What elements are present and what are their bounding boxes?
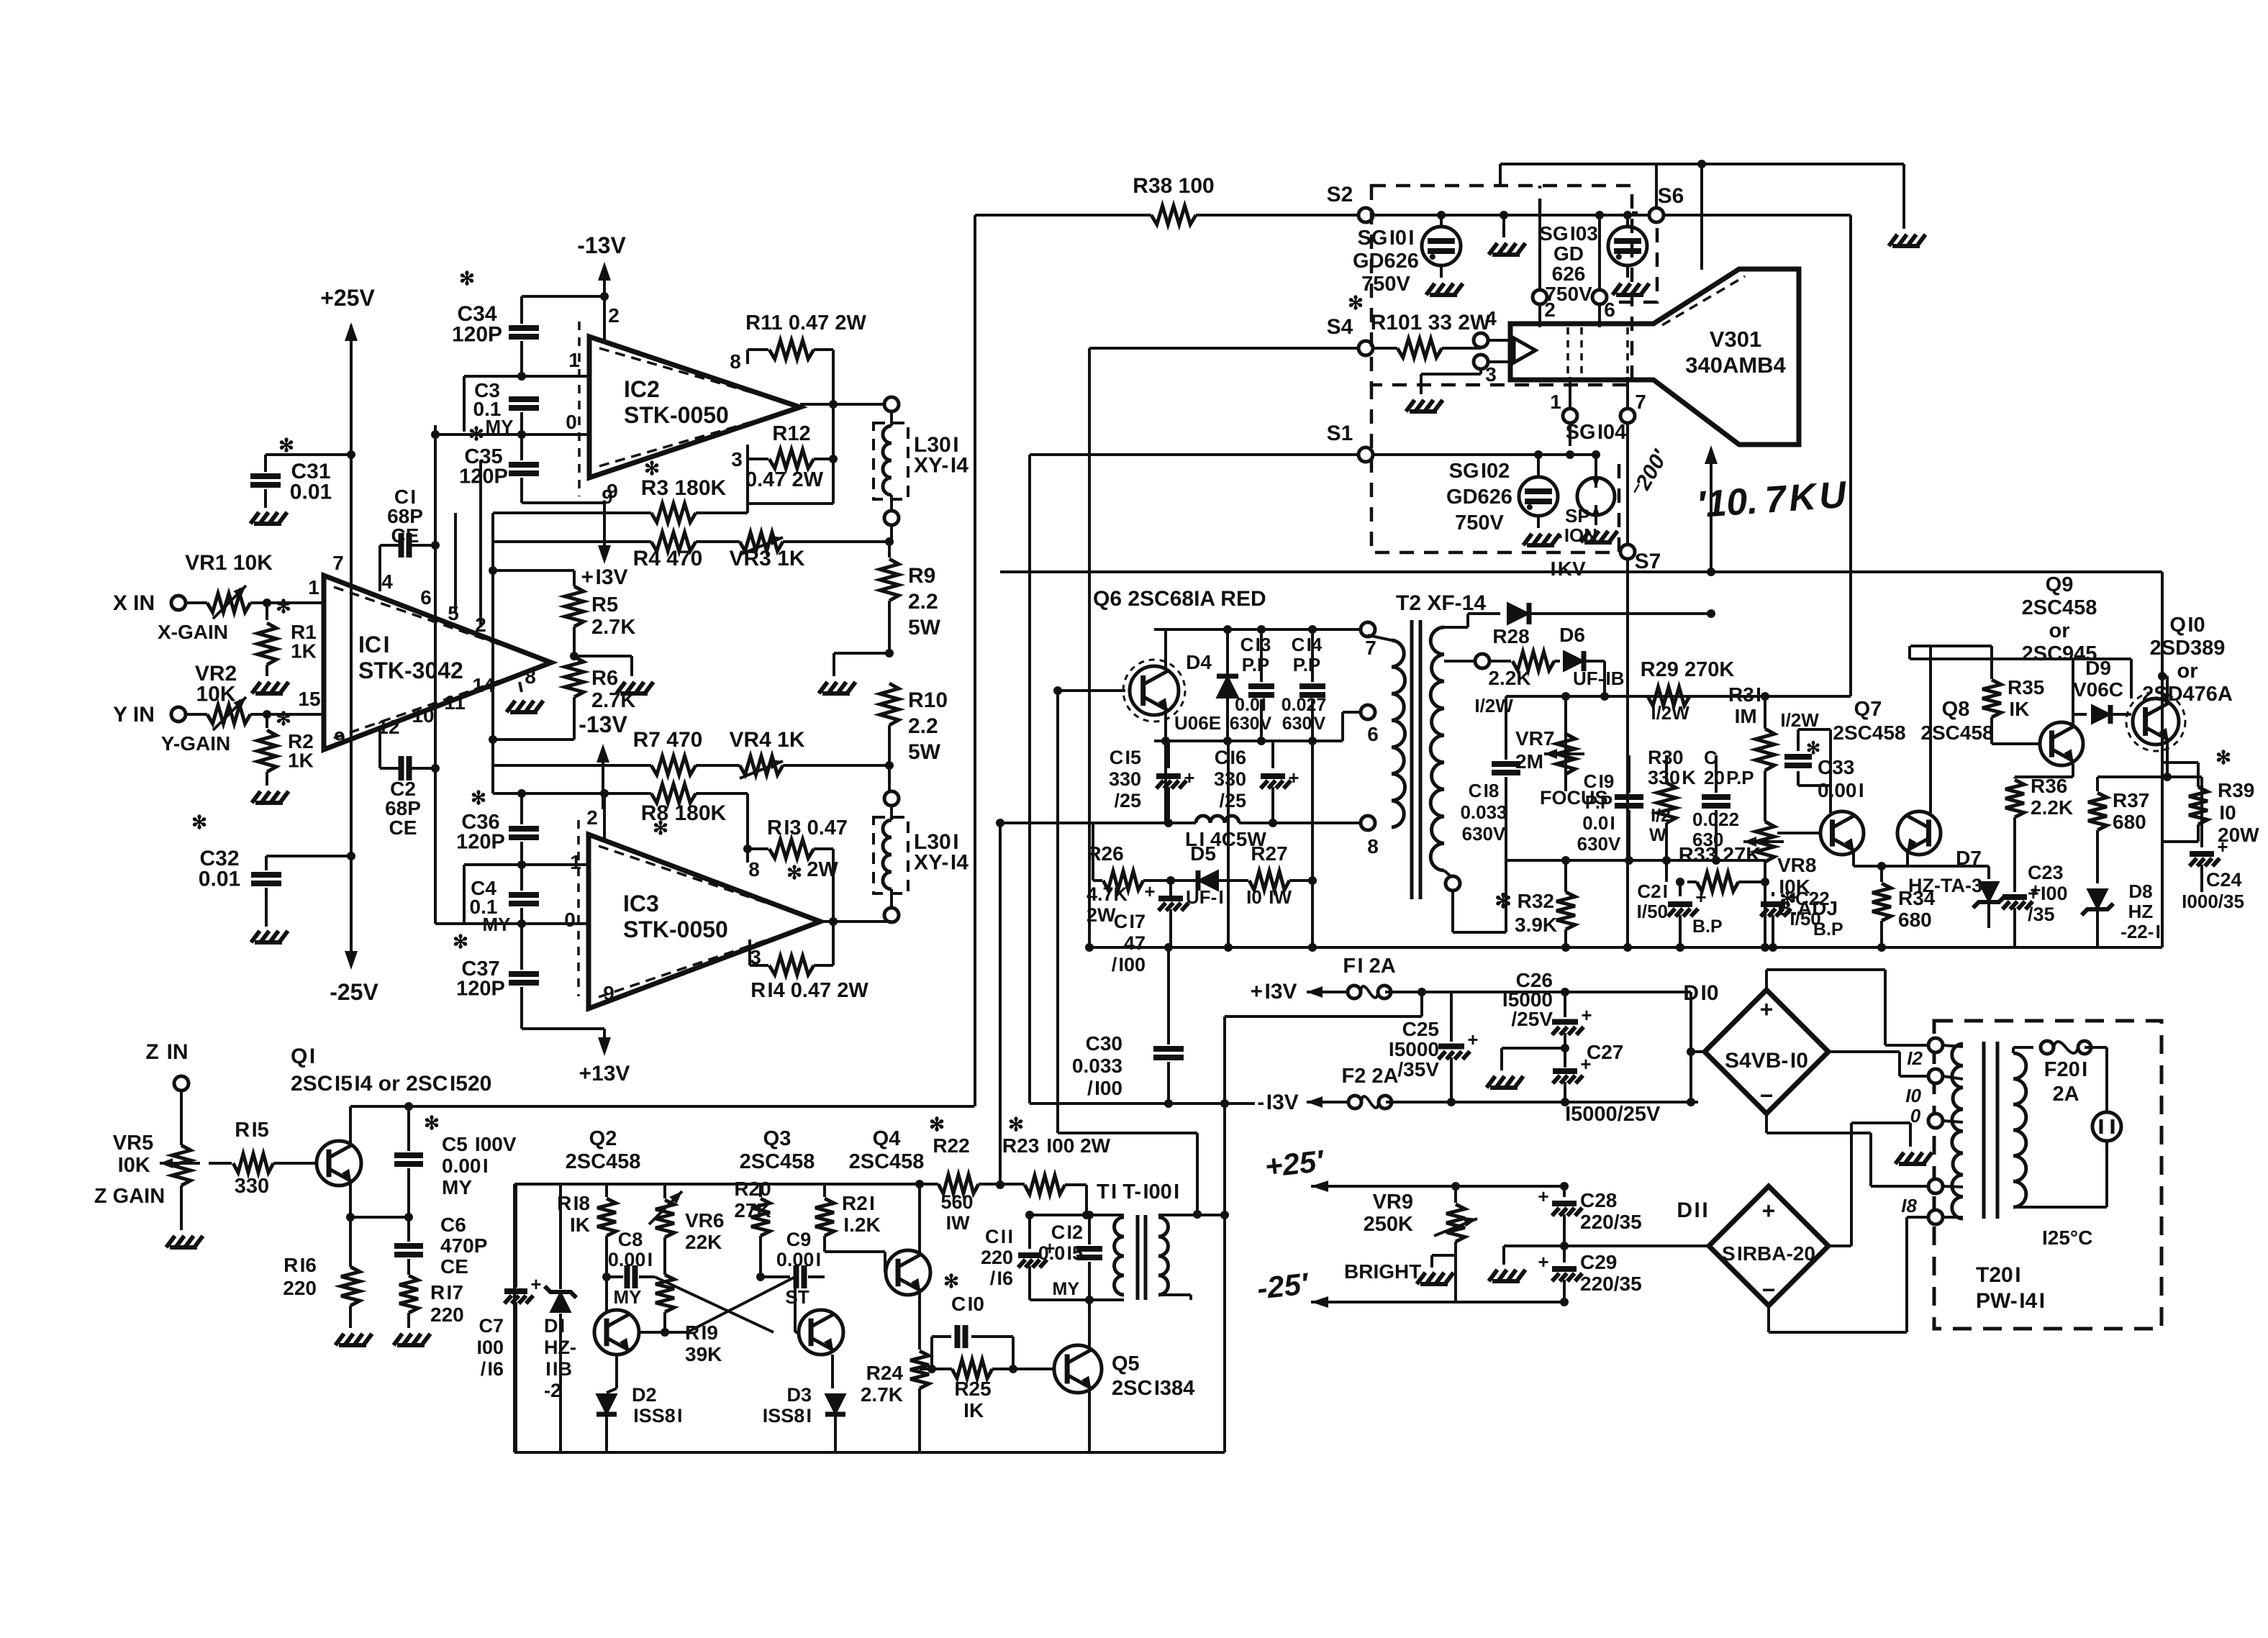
- svg-text:C I7: C I7: [1114, 911, 1146, 932]
- capacitor C11: [1028, 1215, 1031, 1249]
- svg-text:Y IN: Y IN: [113, 703, 155, 727]
- svg-text:I/2W: I/2W: [1779, 709, 1819, 731]
- capacitor C24: [2167, 775, 2202, 778]
- ground T201 CT: [1909, 1123, 1912, 1147]
- svg-text:750V: 750V: [1361, 273, 1410, 296]
- wire R37 top: [2097, 775, 2167, 778]
- svg-text:P.P: P.P: [1293, 654, 1321, 675]
- wire focus block top: [1506, 695, 1765, 698]
- ground C31: [250, 512, 287, 524]
- resistor R21 1.2K: [823, 1184, 826, 1197]
- wire -13V left rail: [1030, 1102, 1255, 1105]
- capacitor C35: [520, 434, 523, 460]
- wire S1 line: [1030, 453, 1358, 456]
- op-amp IC1: [324, 575, 551, 750]
- wire D11 right: [1828, 1245, 1851, 1247]
- svg-text:I0: I0: [2218, 801, 2236, 824]
- wire Q9 base: [1992, 742, 2038, 745]
- svg-text:HZ: HZ: [2128, 901, 2154, 922]
- pin 1 neck: [1563, 409, 1577, 423]
- svg-text:V06C: V06C: [2073, 678, 2123, 701]
- svg-text:R39: R39: [2218, 779, 2254, 801]
- svg-text:S4VB- I0: S4VB- I0: [1725, 1049, 1808, 1073]
- power rail +25V/-25V: [350, 325, 353, 965]
- svg-text:0.033: 0.033: [1460, 801, 1507, 823]
- svg-text:+: +: [1144, 881, 1155, 902]
- capacitor C8: [607, 1275, 623, 1278]
- capacitor C17: [1158, 896, 1183, 901]
- svg-text:R I4 0.47 2W: R I4 0.47 2W: [750, 979, 868, 1002]
- svg-text:C7: C7: [478, 1315, 504, 1337]
- svg-text:750V: 750V: [1455, 511, 1504, 534]
- svg-text:630V: 630V: [1462, 823, 1506, 845]
- node S7: [1620, 545, 1635, 559]
- svg-text:220: 220: [283, 1277, 317, 1299]
- resistor R30 330K: [1657, 783, 1676, 823]
- pin 3: [1474, 355, 1488, 369]
- svg-text:R9: R9: [908, 564, 935, 588]
- svg-text:C23: C23: [2028, 862, 2064, 883]
- svg-text:+25V: +25V: [320, 285, 375, 311]
- svg-text:+: +: [1184, 767, 1194, 788]
- svg-text:T I T- I00 I: T I T- I00 I: [1097, 1180, 1179, 1204]
- svg-text:C29: C29: [1580, 1251, 1617, 1273]
- dashed gun lines: [1568, 327, 1628, 377]
- wire D10 bottom: [1765, 1114, 1768, 1133]
- svg-text:or: or: [2177, 660, 2198, 683]
- svg-text:IW: IW: [944, 1212, 970, 1234]
- node S6: [1649, 208, 1664, 222]
- svg-text:F20 I: F20 I: [2044, 1058, 2087, 1081]
- svg-text:I0: I0: [1904, 1085, 1921, 1106]
- zener D7: [1987, 866, 1990, 879]
- resistor R29 270K: [1605, 695, 1646, 698]
- resistor R9 2.2 5W: [888, 542, 891, 558]
- svg-text:D7: D7: [1956, 847, 1982, 869]
- dashed pin line IC3: [577, 820, 580, 996]
- svg-text:R20: R20: [734, 1178, 771, 1200]
- svg-text:R11 0.47 2W: R11 0.47 2W: [745, 311, 866, 335]
- capacitor C2: [380, 767, 399, 770]
- svg-text:2SC I384: 2SC I384: [1112, 1377, 1194, 1400]
- capacitor C27: [1553, 1068, 1577, 1074]
- svg-text:C27: C27: [1587, 1041, 1623, 1063]
- svg-text:SP: SP: [1565, 505, 1590, 527]
- ground S2/S6 mid: [1502, 215, 1505, 237]
- svg-text:/ I00: / I00: [1112, 954, 1146, 975]
- svg-text:2W: 2W: [1087, 904, 1116, 926]
- svg-text:/ I6: / I6: [990, 1268, 1013, 1289]
- wire pin9 IC3 +13V: [522, 1027, 604, 1030]
- capacitor C16: [1271, 741, 1274, 768]
- svg-text:+: +: [1762, 1198, 1776, 1224]
- svg-text:C I I: C I I: [985, 1226, 1013, 1247]
- wire VR8 to Q7 base: [1777, 832, 1820, 834]
- wire Z in: [180, 1091, 183, 1145]
- bridge D10: [1705, 990, 1828, 1114]
- pot VR7 2M focus: [1564, 729, 1567, 791]
- svg-text:C30: C30: [1086, 1032, 1122, 1055]
- svg-text:4.7K: 4.7K: [1087, 883, 1128, 905]
- wire C33/Q7 collector: [1798, 784, 1831, 787]
- svg-text:T20 I: T20 I: [1976, 1263, 2021, 1287]
- wire Q7/Q8 emitters: [1852, 850, 1855, 866]
- wire Z collector rail: [350, 1105, 974, 1108]
- svg-text:✻: ✻: [459, 268, 475, 289]
- svg-text:-25′: -25′: [1256, 1266, 1311, 1305]
- svg-text:MY: MY: [614, 1286, 642, 1308]
- resistor R37 680: [2088, 793, 2107, 830]
- wire Q2 emitter: [615, 1355, 618, 1388]
- svg-text:✻: ✻: [943, 1270, 959, 1292]
- wire IC2 output: [800, 403, 884, 406]
- wire S4 bus down: [1088, 348, 1091, 947]
- svg-text:0: 0: [564, 909, 576, 931]
- wire focus block bottom: [1506, 859, 1765, 862]
- svg-text:✻: ✻: [276, 708, 291, 729]
- wire Q3 base: [794, 1277, 797, 1332]
- wire -13V arrow mid: [602, 748, 604, 809]
- svg-text:1: 1: [1550, 391, 1561, 413]
- svg-text:-2: -2: [544, 1380, 561, 1401]
- node S4: [1358, 341, 1373, 355]
- svg-text:R10: R10: [908, 688, 948, 712]
- svg-text:+: +: [1581, 1004, 1592, 1026]
- svg-text:✻: ✻: [1806, 739, 1820, 758]
- svg-text:2.2K: 2.2K: [2031, 796, 2073, 819]
- svg-text:630V: 630V: [1230, 714, 1272, 734]
- wire anode arrow: [1710, 450, 1713, 546]
- terminal Z IN: [174, 1076, 189, 1091]
- spark gap SP-ION: [1577, 478, 1615, 515]
- capacitor C18: [1505, 754, 1507, 760]
- svg-text:VR1 10K: VR1 10K: [185, 551, 273, 575]
- wire Q4 emitter: [918, 1291, 921, 1350]
- svg-text:✻: ✻: [424, 1112, 440, 1134]
- svg-text:STK-0050: STK-0050: [623, 916, 728, 942]
- svg-text:+: +: [1538, 1186, 1548, 1207]
- ground C6/R17: [394, 1334, 430, 1345]
- resistor R12 feedback: [746, 445, 749, 459]
- svg-text:2SC458: 2SC458: [849, 1150, 925, 1173]
- svg-text:2.7K: 2.7K: [591, 616, 635, 639]
- resistor R27 10 1W: [1249, 871, 1289, 890]
- svg-text:220: 220: [430, 1303, 464, 1326]
- svg-text:2SC458: 2SC458: [2022, 596, 2097, 619]
- svg-text:SG I02: SG I02: [1449, 460, 1510, 483]
- svg-text:0: 0: [1910, 1105, 1921, 1127]
- svg-text:-13V: -13V: [577, 232, 626, 258]
- capacitor C3: [509, 399, 539, 408]
- svg-text:Q8: Q8: [1942, 698, 1970, 721]
- svg-text:2.2K: 2.2K: [1488, 667, 1530, 689]
- svg-text:0.0 I: 0.0 I: [1235, 695, 1266, 715]
- wire pin1 IC3: [464, 863, 588, 866]
- svg-text:R I7: R I7: [430, 1281, 463, 1303]
- resistor R26 4.7K 2W: [1093, 879, 1102, 882]
- zener D8: [2087, 889, 2108, 909]
- svg-text:C: C: [1704, 747, 1718, 768]
- wire R3/R4 bus: [491, 513, 494, 793]
- capacitor C22 B.P: [1772, 892, 1774, 896]
- svg-text:BRIGHT: BRIGHT: [1344, 1260, 1421, 1283]
- capacitor C9: [761, 1275, 790, 1278]
- svg-text:1K: 1K: [288, 750, 314, 772]
- svg-text:+ I00: + I00: [2028, 883, 2068, 904]
- capacitor C12: [1088, 1215, 1091, 1245]
- svg-text:R38 100: R38 100: [1133, 174, 1214, 198]
- svg-text:Q4: Q4: [873, 1127, 901, 1150]
- svg-text:9: 9: [603, 982, 614, 1004]
- wire C10/R25 loop: [930, 1337, 933, 1369]
- wire C17-C30 column: [1167, 947, 1170, 1045]
- terminal L301 bottom: [884, 511, 899, 525]
- resistor R2: [266, 714, 268, 728]
- svg-text:+13V: +13V: [579, 1062, 630, 1086]
- svg-text:SG I0 I: SG I0 I: [1358, 227, 1415, 250]
- terminal R28 in: [1475, 654, 1489, 668]
- capacitor C37: [520, 924, 523, 970]
- svg-text:+: +: [1760, 996, 1774, 1022]
- wire S7 column: [1626, 460, 1629, 545]
- svg-text:IC3: IC3: [623, 891, 659, 916]
- svg-text:0.00 I: 0.00 I: [442, 1155, 489, 1177]
- svg-text:R I3 0.47: R I3 0.47: [767, 816, 848, 840]
- diode HV top: [1466, 614, 1469, 627]
- resistor R13: [746, 849, 749, 863]
- capacitor C23: [2002, 894, 2027, 900]
- svg-text:✻: ✻: [929, 1114, 945, 1135]
- svg-text:C24: C24: [2206, 869, 2242, 891]
- svg-text:✻: ✻: [653, 817, 668, 839]
- wire Q8 collector: [1929, 646, 1932, 813]
- svg-text:S1: S1: [1327, 422, 1353, 445]
- svg-text:R2 I: R2 I: [842, 1192, 875, 1214]
- svg-text:U06E: U06E: [1174, 712, 1221, 734]
- terminal L301Y top: [884, 791, 899, 806]
- capacitor C4: [509, 895, 539, 904]
- svg-text:I0K: I0K: [116, 1154, 150, 1177]
- svg-text:-13V: -13V: [579, 711, 627, 737]
- wire Q4 base: [825, 1250, 885, 1253]
- ground R2: [252, 791, 289, 803]
- pin 2 neck: [1533, 290, 1547, 304]
- svg-text:Y-GAIN: Y-GAIN: [161, 732, 230, 755]
- svg-text:7: 7: [1365, 637, 1376, 659]
- resistor R17 220: [399, 1275, 418, 1313]
- resistor R38 100: [975, 214, 1151, 217]
- T201 primary coil: [1952, 1044, 1963, 1219]
- resistor R1: [266, 603, 268, 620]
- svg-text:HZ-: HZ-: [544, 1337, 576, 1358]
- transformer T2 secondary: [1430, 627, 1444, 870]
- resistor R10 2.2 5W: [880, 683, 899, 725]
- svg-text:CE: CE: [389, 816, 417, 839]
- inductor L301 X: [874, 423, 908, 499]
- wire 13V to Z box: [1420, 992, 1423, 1016]
- svg-text:I00: I00: [475, 1337, 504, 1358]
- svg-text:B.P: B.P: [1692, 916, 1723, 937]
- svg-text:XY- I4: XY- I4: [914, 851, 969, 875]
- svg-text:7: 7: [1635, 391, 1646, 413]
- svg-text:I.2K: I.2K: [842, 1214, 881, 1236]
- svg-text:C I3: C I3: [1240, 634, 1271, 655]
- svg-text:IM: IM: [1733, 705, 1756, 727]
- svg-text:C28: C28: [1580, 1189, 1617, 1211]
- svg-text:P.P: P.P: [1585, 791, 1613, 813]
- svg-text:+ I3V: + I3V: [581, 565, 627, 589]
- transistor Q7: [1820, 811, 1864, 855]
- svg-text:2.7K: 2.7K: [591, 689, 635, 712]
- svg-text:20 P.P: 20 P.P: [1704, 767, 1754, 788]
- svg-text:I2: I2: [1905, 1047, 1923, 1069]
- wire pin0 IC3: [435, 922, 588, 925]
- svg-text:- ION: - ION: [1556, 524, 1597, 546]
- node S2: [1358, 208, 1373, 222]
- resistor R34 680: [1872, 883, 1891, 921]
- svg-text:✻: ✻: [453, 931, 468, 952]
- wire Q4 collector: [918, 1184, 921, 1255]
- svg-text:R36: R36: [2031, 775, 2067, 797]
- svg-text:2: 2: [608, 304, 620, 327]
- svg-text:✻: ✻: [468, 423, 484, 445]
- ground C32: [251, 931, 288, 942]
- svg-text:✻: ✻: [191, 811, 207, 833]
- svg-text:PW- I4 I: PW- I4 I: [1976, 1289, 2045, 1313]
- svg-text:IC2: IC2: [624, 376, 660, 402]
- svg-text:+: +: [1538, 1251, 1548, 1273]
- capacitor C34: [520, 296, 523, 324]
- svg-text:D I0: D I0: [1683, 981, 1718, 1005]
- svg-text:2: 2: [586, 806, 598, 829]
- wire C15/C16 bottom rail: [1000, 822, 1180, 824]
- svg-text:✻: ✻: [2215, 747, 2231, 768]
- svg-text:S IRBA-20: S IRBA-20: [1722, 1242, 1815, 1265]
- pin 4: [1474, 333, 1488, 347]
- wire D10 right: [1828, 1050, 1900, 1053]
- svg-text:R22: R22: [933, 1134, 969, 1157]
- svg-text:R6: R6: [591, 667, 618, 690]
- capacitor C20: [1715, 755, 1718, 793]
- diode D2: [597, 1394, 617, 1414]
- svg-text:✻ R32: ✻ R32: [1494, 890, 1554, 912]
- svg-text:120P: 120P: [456, 978, 505, 1001]
- svg-text:VR9: VR9: [1373, 1191, 1413, 1214]
- svg-text:0.01: 0.01: [199, 868, 240, 891]
- svg-text:C8: C8: [618, 1229, 643, 1250]
- wire Q1 collector: [349, 1106, 352, 1145]
- capacitor C32: [266, 855, 351, 857]
- svg-text:✻: ✻: [276, 596, 291, 617]
- svg-text:2A: 2A: [2052, 1083, 2079, 1106]
- resistor R16 220: [341, 1267, 360, 1306]
- resistor R36 2.2K: [2005, 780, 2024, 817]
- svg-text:9: 9: [607, 480, 618, 502]
- capacitor C26: [1564, 992, 1566, 1017]
- wire S6 right link: [1664, 214, 1851, 217]
- svg-text:7: 7: [332, 552, 344, 574]
- ground VR9: [1432, 1254, 1456, 1257]
- svg-text:10K: 10K: [196, 683, 235, 706]
- pot VR5: [172, 1145, 191, 1186]
- wire HV rail: [1000, 570, 2162, 573]
- wire -13V arrow: [603, 266, 606, 296]
- transformer T201 box: [1934, 1021, 2162, 1329]
- svg-text:2.2: 2.2: [908, 714, 938, 738]
- transformer T2 core: [1412, 620, 1420, 899]
- svg-text:8: 8: [730, 350, 741, 373]
- svg-text:8: 8: [748, 858, 760, 881]
- svg-text:Q2: Q2: [589, 1127, 617, 1150]
- fuse F201: [2012, 1047, 2015, 1053]
- capacitor C36 column: [520, 793, 523, 824]
- svg-text:XY- I4: XY- I4: [914, 454, 969, 478]
- svg-text:S2: S2: [1327, 183, 1353, 206]
- svg-text:C I8: C I8: [1469, 780, 1500, 801]
- wire X to IC1 pin1: [250, 601, 324, 604]
- wire S2 bus down: [974, 215, 976, 1106]
- wire Q5 collector: [1088, 1300, 1091, 1350]
- ground SG102: [1523, 534, 1560, 545]
- svg-text:✻C22: ✻C22: [1779, 888, 1829, 909]
- svg-text:11: 11: [444, 691, 466, 714]
- bridge D11: [1709, 1186, 1828, 1306]
- wire Q6 base: [1058, 689, 1125, 692]
- wire pin2 net: [522, 295, 604, 298]
- svg-text:/ I00: / I00: [1087, 1077, 1122, 1099]
- electron gun: [1514, 338, 1536, 363]
- svg-text:6: 6: [1604, 299, 1615, 321]
- ground SG103: [1612, 283, 1649, 295]
- svg-text:S4: S4: [1327, 315, 1353, 339]
- svg-text:I/2W: I/2W: [1649, 702, 1689, 724]
- wire T2 sec to block: [1451, 891, 1454, 932]
- svg-text:R7 470: R7 470: [633, 728, 703, 752]
- svg-text:2SC458: 2SC458: [566, 1150, 641, 1173]
- svg-text:I KV: I KV: [1548, 558, 1586, 580]
- resistor R24 2.7K: [910, 1351, 929, 1388]
- pot VR2 Y-gain: [186, 713, 207, 716]
- wire D11 bottom: [1767, 1306, 1770, 1332]
- transistor Q3 flip: [799, 1310, 843, 1355]
- svg-text:47: 47: [1124, 932, 1146, 954]
- svg-text:R101 33 2W: R101 33 2W: [1371, 311, 1491, 335]
- dashed pin line IC2: [578, 322, 581, 496]
- capacitor C7: [504, 1288, 527, 1294]
- zener D1: [559, 1184, 562, 1289]
- svg-text:120P: 120P: [459, 465, 508, 488]
- resistor R39 10 20W: [2189, 787, 2208, 824]
- svg-text:MY: MY: [1053, 1279, 1080, 1299]
- svg-text:C9: C9: [786, 1229, 812, 1250]
- svg-text:/25: /25: [1114, 790, 1141, 811]
- svg-text:3: 3: [731, 448, 743, 470]
- svg-text:GD626: GD626: [1353, 250, 1419, 273]
- svg-text:✻: ✻: [644, 458, 660, 479]
- svg-text:D8: D8: [2128, 881, 2152, 902]
- svg-text:SG I04: SG I04: [1566, 421, 1627, 444]
- svg-text:4: 4: [381, 570, 393, 593]
- svg-text:✻: ✻: [471, 787, 486, 809]
- transistor Q6: [1130, 666, 1179, 715]
- svg-text:R35: R35: [2008, 676, 2044, 699]
- wire S2-S6 link: [1373, 214, 1649, 217]
- wire D11 left: [1564, 1245, 1709, 1247]
- svg-text:I000/35: I000/35: [2180, 891, 2244, 912]
- svg-text:5: 5: [448, 602, 459, 624]
- svg-text:IK: IK: [568, 1214, 590, 1236]
- svg-text:VR3 1K: VR3 1K: [729, 547, 804, 570]
